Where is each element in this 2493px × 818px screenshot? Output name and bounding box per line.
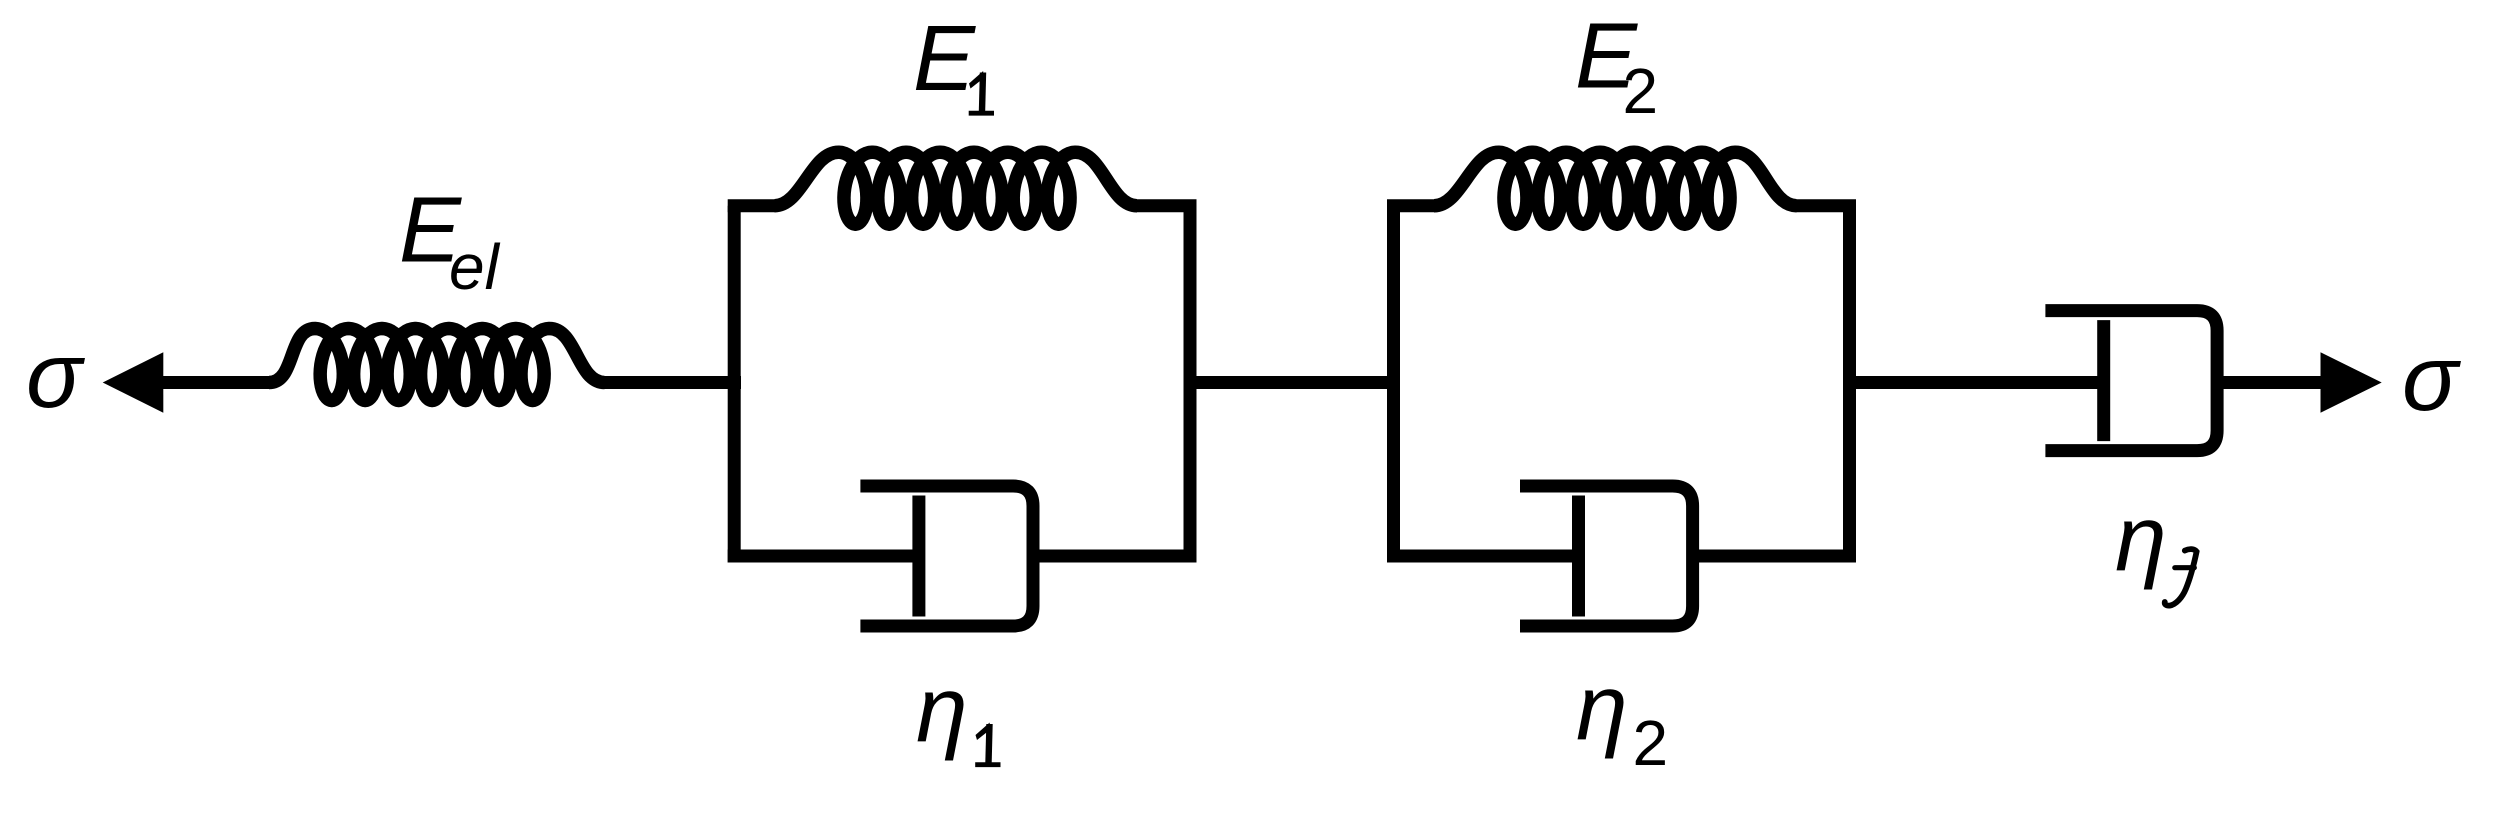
KV unit 1: bottom wire left segment — [728, 550, 919, 563]
spring E_el — [269, 329, 605, 401]
spring E2 (top branch of KV unit 2) — [1434, 152, 1797, 224]
svg-text:η: η — [1576, 655, 1628, 759]
dashpot eta1 cylinder — [860, 486, 1033, 626]
KV unit 2: top wire right stub — [1797, 199, 1857, 212]
arrow right (stress direction) — [2321, 352, 2382, 412]
svg-text:η: η — [916, 657, 968, 761]
subscript 1 of eta_1 — [975, 723, 1000, 768]
wire: KV unit 1 to KV unit 2 — [1190, 376, 1394, 389]
svg-text:el: el — [449, 231, 501, 303]
KV unit 1: left vertical wire — [728, 206, 741, 563]
svg-text:E: E — [913, 6, 976, 110]
KV unit 2: right vertical wire — [1843, 206, 1856, 563]
subscript 1 of E_1 — [969, 71, 994, 116]
KV unit 2: bottom wire left segment — [1387, 550, 1579, 563]
wire: spring E_el to KV unit 1 — [604, 376, 741, 389]
svg-text:2: 2 — [1623, 55, 1659, 127]
KV unit 2: top wire left stub — [1387, 199, 1434, 212]
arrow left (stress direction) — [103, 352, 164, 412]
svg-text:σ: σ — [26, 323, 85, 427]
svg-text:σ: σ — [2402, 326, 2461, 430]
svg-text:η: η — [2115, 486, 2167, 590]
spring E1 (top branch of KV unit 1) — [775, 152, 1138, 224]
KV unit 2: bottom wire right segment — [1699, 550, 1856, 563]
wire: KV unit 2 to dashpot eta_f piston — [1850, 376, 2104, 389]
svg-text:2: 2 — [1633, 707, 1669, 779]
KV unit 2: left vertical wire — [1387, 206, 1400, 563]
dashpot eta_f piston rod — [2097, 320, 2110, 441]
subscript f of eta_f — [2165, 549, 2197, 606]
dashpot eta2 piston rod — [1572, 496, 1585, 617]
dashpot eta1 piston rod — [912, 496, 925, 617]
wire: dashpot eta_f to right arrow — [2217, 376, 2324, 389]
KV unit 1: top wire right stub — [1137, 199, 1197, 212]
KV unit 1: bottom wire right segment — [1039, 550, 1196, 563]
KV unit 1: top wire left stub — [728, 199, 775, 212]
KV unit 1: right vertical wire — [1184, 206, 1197, 563]
dashpot eta2 cylinder — [1520, 486, 1693, 626]
dashpot eta_f cylinder — [2045, 311, 2217, 451]
